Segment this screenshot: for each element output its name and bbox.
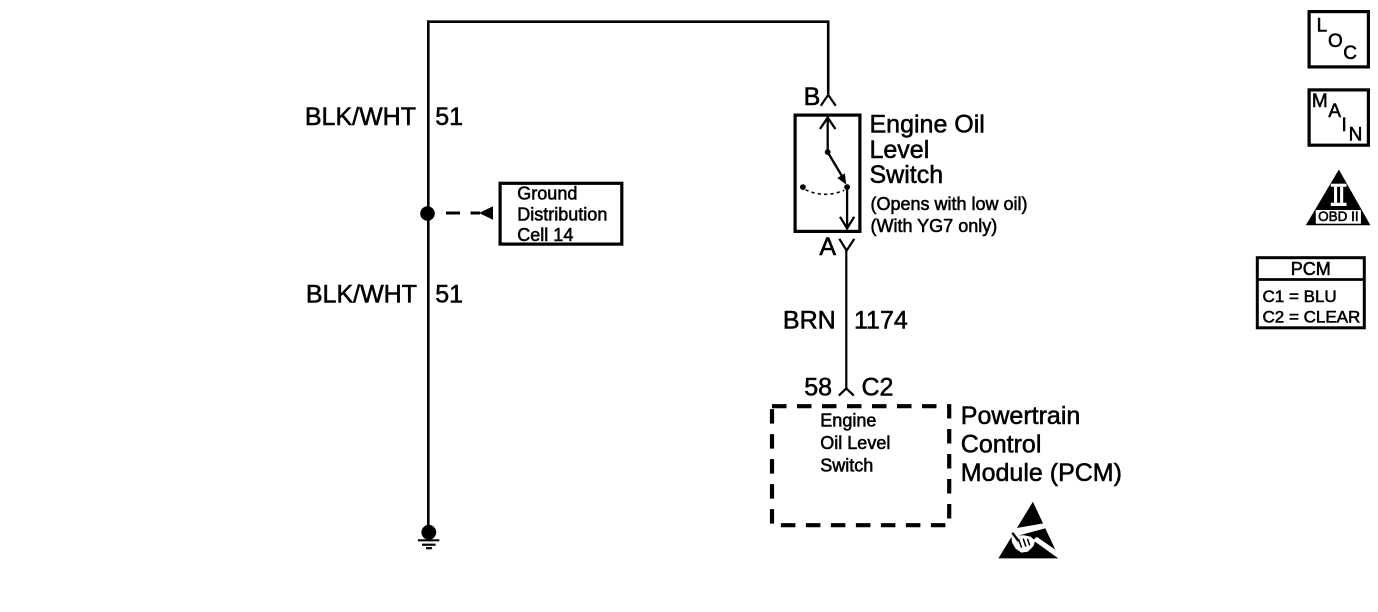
label 51 (upper) <box>435 103 463 131</box>
svg-text:C2: C2 <box>862 373 894 401</box>
svg-text:Powertrain: Powertrain <box>961 402 1081 430</box>
svg-text:N: N <box>1349 125 1363 146</box>
switch internal: down arrow to terminal A <box>840 190 854 229</box>
Powertrain Control Module (PCM) label <box>961 402 1122 487</box>
svg-text:B: B <box>804 83 821 111</box>
wire: top horizontal bus from left drop to switch terminal B <box>427 20 829 23</box>
svg-text:M: M <box>1312 91 1328 112</box>
PCM dashed module box <box>772 406 949 525</box>
label pin 58 <box>804 373 832 401</box>
svg-text:(Opens with low oil): (Opens with low oil) <box>871 194 1028 214</box>
svg-text:Switch: Switch <box>870 161 944 189</box>
arrowhead pointing left at Ground Distribution box <box>479 206 493 220</box>
switch name label <box>870 110 1028 236</box>
wire: drop to switch terminal B x=828 <box>827 21 830 94</box>
svg-text:C2 = CLEAR: C2 = CLEAR <box>1263 308 1361 327</box>
svg-text:Level: Level <box>870 136 930 164</box>
PCM internal function label <box>820 411 890 476</box>
ground splice dot G <box>421 525 436 540</box>
svg-text:(With YG7 only): (With YG7 only) <box>871 216 998 236</box>
label BLK/WHT (lower) <box>306 281 417 309</box>
svg-text:Control: Control <box>961 430 1042 458</box>
legend OBD II triangle <box>1306 170 1371 226</box>
wire: dashed reference leader <box>446 212 480 215</box>
switch internal: movable contact blade with arrowhead <box>828 152 847 184</box>
label connector C2 <box>862 373 894 401</box>
svg-text:Module (PCM): Module (PCM) <box>961 459 1122 487</box>
switch internal: dashed travel arc <box>806 190 845 195</box>
label 51 (lower) <box>435 281 463 309</box>
svg-text:I: I <box>1342 115 1347 136</box>
label 1174 <box>854 306 908 334</box>
svg-text:O: O <box>1328 31 1343 52</box>
Ground Distribution Cell 14 reference box <box>500 183 622 245</box>
svg-text:BRN: BRN <box>783 306 836 334</box>
svg-text:Engine Oil: Engine Oil <box>870 110 985 138</box>
connector chevron at B <box>821 95 836 106</box>
svg-text:Oil Level: Oil Level <box>820 433 890 453</box>
svg-text:51: 51 <box>435 281 463 309</box>
legend LOC box <box>1309 12 1368 67</box>
wire: left vertical ground run x=428 <box>427 20 430 526</box>
legend PCM connector color box <box>1257 258 1364 328</box>
switch internal: up arrow to terminal B <box>820 118 835 152</box>
legend MAIN box <box>1309 90 1368 146</box>
switch internal: right contact dot <box>844 184 850 190</box>
svg-text:58: 58 <box>804 373 832 401</box>
svg-text:51: 51 <box>435 103 463 131</box>
svg-text:PCM: PCM <box>1291 259 1331 279</box>
label BRN <box>783 306 836 334</box>
svg-text:C: C <box>1343 43 1357 64</box>
wire: BRN 1174 run from A to PCM <box>845 251 847 389</box>
svg-text:L: L <box>1317 16 1328 37</box>
label terminal A <box>819 233 836 261</box>
switch internal: left stationary contact dot <box>800 184 806 190</box>
connector chevron at A <box>839 239 854 251</box>
label terminal B <box>804 83 821 111</box>
switch internal: pivot dot <box>825 149 831 155</box>
ground symbol <box>418 540 439 548</box>
switch box: Engine Oil Level Switch S1 <box>795 115 860 231</box>
svg-text:A: A <box>819 233 836 261</box>
svg-text:Switch: Switch <box>820 455 873 475</box>
svg-text:Distribution: Distribution <box>517 204 607 224</box>
svg-text:1174: 1174 <box>854 306 908 334</box>
ESD static-sensitive symbol <box>998 502 1062 559</box>
junction dot (splice to Ground Distribution) <box>420 206 435 221</box>
svg-text:Cell 14: Cell 14 <box>517 225 573 245</box>
svg-text:Ground: Ground <box>517 184 577 204</box>
svg-text:C1 = BLU: C1 = BLU <box>1263 287 1337 306</box>
connector chevron at C2 <box>839 388 854 395</box>
svg-text:A: A <box>1328 101 1341 122</box>
svg-text:BLK/WHT: BLK/WHT <box>305 103 416 131</box>
svg-text:OBD II: OBD II <box>1318 209 1359 224</box>
label BLK/WHT (upper) <box>305 103 416 131</box>
svg-text:BLK/WHT: BLK/WHT <box>306 281 417 309</box>
svg-text:Engine: Engine <box>820 411 876 431</box>
